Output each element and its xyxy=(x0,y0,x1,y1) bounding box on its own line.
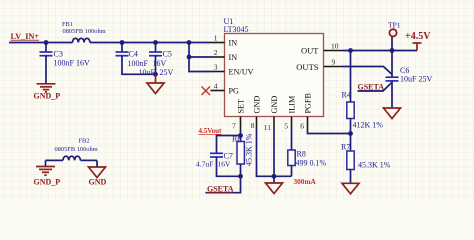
node junction SET xyxy=(238,133,243,138)
svg-text:0805FB 100ohm: 0805FB 100ohm xyxy=(63,28,106,35)
svg-text:25V: 25V xyxy=(160,68,174,77)
svg-text:8: 8 xyxy=(251,121,255,130)
pin 7 SET xyxy=(232,99,245,131)
ferrite bead FB2 xyxy=(46,138,98,161)
pin 11 GND xyxy=(264,96,279,132)
svg-text:45.3K 1%: 45.3K 1% xyxy=(245,133,254,166)
node junction C5 xyxy=(153,40,158,45)
svg-text:300mA: 300mA xyxy=(294,177,317,186)
svg-text:10uF: 10uF xyxy=(139,68,156,77)
ground GND triangle (R7) xyxy=(342,183,359,194)
capacitor C3 xyxy=(40,43,90,84)
svg-text:LV_IN+: LV_IN+ xyxy=(11,32,40,41)
svg-text:1: 1 xyxy=(214,33,218,42)
ground GND triangle (FB2) xyxy=(89,160,107,186)
svg-text:C5: C5 xyxy=(163,49,172,58)
svg-text:PG: PG xyxy=(229,87,240,96)
pin 1 IN xyxy=(211,33,238,47)
wire OUTS to C6 xyxy=(342,67,392,75)
capacitor C6 xyxy=(386,51,433,109)
wire PGFB to divider tap xyxy=(308,130,351,134)
node junction C4/C5 bottom xyxy=(153,72,158,77)
ground GND_P (earth, FB2) xyxy=(34,160,61,186)
pin 2 IN xyxy=(211,48,238,62)
IC U1 LT3045 body xyxy=(224,17,324,117)
svg-text:R8: R8 xyxy=(297,150,306,159)
svg-text:OUT: OUT xyxy=(301,46,319,56)
svg-text:4.7uF: 4.7uF xyxy=(196,159,213,168)
svg-text:100nF 16V: 100nF 16V xyxy=(54,59,90,68)
resistor R8 xyxy=(288,130,327,176)
svg-text:45.3K 1%: 45.3K 1% xyxy=(358,161,391,170)
svg-text:499 0.1%: 499 0.1% xyxy=(296,158,327,167)
svg-text:5: 5 xyxy=(284,122,288,131)
svg-text:3: 3 xyxy=(214,62,218,71)
svg-text:EN/UV: EN/UV xyxy=(229,68,254,77)
svg-text:GND_P: GND_P xyxy=(34,92,61,101)
svg-text:SET: SET xyxy=(237,99,246,114)
svg-text:IN: IN xyxy=(229,53,238,62)
svg-text:FB1: FB1 xyxy=(62,21,73,28)
svg-text:C6: C6 xyxy=(400,66,409,75)
svg-text:C4: C4 xyxy=(129,49,138,58)
net label GSETA (at C6) xyxy=(358,82,392,91)
resistor R6 xyxy=(232,133,254,176)
capacitor C5 xyxy=(139,43,174,77)
capacitor C7 xyxy=(196,151,241,176)
pin 10 OUT xyxy=(301,41,342,55)
pin 3 EN/UV xyxy=(211,62,254,76)
node junction TP1/C6 xyxy=(390,48,395,53)
svg-text:IN: IN xyxy=(229,39,238,48)
pin 6 PGFB xyxy=(300,92,312,130)
wire pin 2 xyxy=(189,56,211,58)
svg-text:+4.5V: +4.5V xyxy=(405,31,431,42)
svg-text:11: 11 xyxy=(264,123,271,132)
resistor R4 xyxy=(342,51,384,134)
svg-text:6: 6 xyxy=(300,122,304,131)
svg-text:16V: 16V xyxy=(153,59,167,68)
svg-text:PGFB: PGFB xyxy=(304,92,313,113)
node junction divider tap xyxy=(348,131,353,136)
svg-text:GND: GND xyxy=(270,96,279,114)
svg-text:GSETA: GSETA xyxy=(358,82,385,91)
svg-text:ILIM: ILIM xyxy=(288,95,297,113)
svg-text:R4: R4 xyxy=(342,91,351,100)
node junction C4 xyxy=(120,40,125,45)
svg-text:4.5Vout: 4.5Vout xyxy=(199,127,223,135)
node junction GND rail xyxy=(272,174,277,179)
node junction R4 tap xyxy=(348,48,353,53)
ground GND triangle (C6) xyxy=(384,108,401,119)
svg-text:GND: GND xyxy=(253,96,262,114)
svg-text:7: 7 xyxy=(232,122,236,131)
svg-text:R7: R7 xyxy=(341,143,350,152)
wire main input rail xyxy=(9,42,73,44)
svg-text:0805FB 100ohm: 0805FB 100ohm xyxy=(55,146,98,153)
svg-text:C3: C3 xyxy=(54,49,63,58)
node junction C3 xyxy=(44,40,49,45)
test point TP1 xyxy=(388,21,401,51)
svg-text:2: 2 xyxy=(214,48,218,57)
ground GND triangle (chip) xyxy=(266,183,283,194)
svg-text:LT3045: LT3045 xyxy=(224,25,249,34)
pin 4 PG with no-ERC X xyxy=(202,81,240,95)
wire 4.5Vout to C7 xyxy=(217,136,241,154)
svg-text:GND: GND xyxy=(89,178,107,187)
capacitor C4 xyxy=(116,43,167,75)
pin 5 ILIM xyxy=(284,95,296,130)
svg-text:GND_P: GND_P xyxy=(34,178,61,187)
svg-text:16V: 16V xyxy=(218,159,232,168)
wire riser to pins 2 and 3 xyxy=(189,43,211,72)
node junction pin 2 xyxy=(187,55,192,60)
svg-text:TP1: TP1 xyxy=(388,21,401,30)
wire SET node xyxy=(240,130,242,142)
svg-text:GSETA: GSETA xyxy=(207,184,234,193)
pin 9 OUTS xyxy=(296,57,342,72)
power +4.5V bar xyxy=(405,31,431,51)
svg-text:FB2: FB2 xyxy=(79,138,90,145)
svg-text:9: 9 xyxy=(332,57,336,66)
ground GND triangle (C4/C5) xyxy=(147,74,164,93)
ferrite bead FB1 xyxy=(62,21,106,43)
resistor R7 xyxy=(341,134,391,184)
svg-text:100nF: 100nF xyxy=(128,59,149,68)
wire pin 11 down xyxy=(273,130,275,183)
svg-text:412K 1%: 412K 1% xyxy=(353,121,384,130)
pin 8 GND xyxy=(251,96,262,130)
wire OUT rail xyxy=(342,50,417,52)
node junction pins 2-3 riser top xyxy=(187,40,192,45)
svg-text:R6: R6 xyxy=(232,135,241,144)
node junction R6/C7/GSETA xyxy=(238,174,243,179)
net label GSETA (bottom) xyxy=(206,176,241,193)
svg-text:OUTS: OUTS xyxy=(296,62,318,72)
ground GND_P (earth) xyxy=(34,84,61,101)
svg-text:10: 10 xyxy=(331,41,339,50)
svg-text:10uF 25V: 10uF 25V xyxy=(400,75,432,84)
wire GND pins rail xyxy=(257,130,292,176)
svg-text:4: 4 xyxy=(214,81,218,90)
